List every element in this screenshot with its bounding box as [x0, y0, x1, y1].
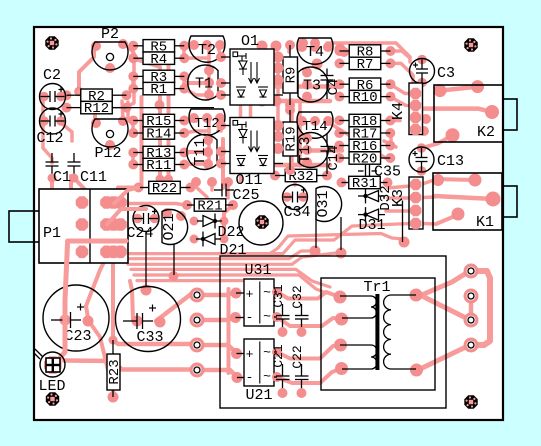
wire: bundle trace 7 lower — [137, 281, 259, 284]
svg-text:C32: C32 — [290, 285, 305, 308]
svg-text:~: ~ — [263, 345, 271, 360]
resistor R31 — [337, 178, 347, 188]
via O31 lead 1 — [310, 246, 321, 257]
pad K2 inner right — [471, 80, 484, 93]
wire: K1 inner diagonal — [436, 216, 455, 224]
pads row above R21 — [191, 177, 201, 187]
relay K2 body — [434, 85, 503, 142]
svg-text:T3: T3 — [303, 78, 321, 95]
svg-text:C21: C21 — [271, 344, 286, 368]
relay K1 body — [433, 173, 502, 230]
svg-text:O11: O11 — [235, 172, 262, 189]
wire: U21 output to transformer primary 3 — [277, 345, 341, 359]
transistor T4 — [297, 42, 307, 52]
wire: K3 pad2 to K1 — [422, 195, 435, 199]
wire: vertical stub left of R15 — [126, 102, 130, 121]
wire: ring4 to LED right pad — [64, 361, 197, 370]
capacitor C1 — [51, 153, 53, 162]
connector K4 — [409, 83, 423, 135]
resistor R32 — [270, 171, 280, 181]
optocoupler O11 — [261, 120, 272, 131]
resistor R20 — [334, 153, 344, 163]
svg-text:R1: R1 — [150, 82, 167, 98]
transformer secondary winding — [391, 294, 416, 296]
svg-text:C23: C23 — [64, 328, 91, 345]
connector K3 — [409, 177, 423, 229]
svg-text:T12: T12 — [194, 116, 219, 132]
wire: U31 output to transformer primary 2 — [277, 317, 342, 326]
buzzer outline circle — [239, 201, 283, 245]
wire: D32 to K3 pad3 — [386, 209, 410, 213]
via O21 lead — [169, 271, 179, 281]
pad K1 inner lone — [452, 208, 465, 221]
wire: R17/R16/R20 right pads vertical — [389, 133, 393, 146]
pad K2 inner big — [485, 105, 499, 119]
via end of vertical 2 — [164, 175, 173, 184]
wire: C23 top feed diagonal — [86, 262, 104, 318]
diode D31 symbol — [358, 214, 366, 216]
wire: transformer secondary top to ring pad column — [418, 294, 468, 319]
svg-text:K2: K2 — [477, 124, 495, 141]
transformer pad secondary top — [410, 289, 423, 302]
transformer pad primary 1 — [334, 291, 347, 304]
connector P1 tab (left board edge) — [9, 211, 40, 242]
wire: bundle trace 4 (to O31 lead pad 2) — [128, 253, 341, 264]
output hole ring 2 — [190, 313, 205, 328]
resistor R17 — [334, 128, 344, 138]
mounting hole bottom-right — [464, 395, 477, 408]
via right of C2 — [74, 87, 84, 97]
svg-text:C12: C12 — [36, 130, 63, 147]
buzzer center hole — [255, 215, 268, 228]
wire: K1 inner trace 2 — [435, 196, 493, 199]
svg-text:C1 C11: C1 C11 — [53, 169, 107, 186]
wire: U21 output to transformer primary 4 — [277, 369, 342, 384]
svg-text:~: ~ — [263, 285, 271, 300]
svg-text:C33: C33 — [136, 329, 163, 346]
wire: vertical pair T3 down to T14/R32 — [290, 100, 294, 166]
resistor R15 — [128, 116, 138, 126]
wire: bundle trace 1 (branch to via near K3) — [270, 234, 404, 254]
wire: R5/R4 left pads vertical — [131, 46, 135, 58]
wire: R3 left pad to R1 pad — [131, 76, 135, 88]
wire: R22 left feed — [118, 186, 140, 190]
wire: O11 right pads vertical — [276, 126, 280, 137]
wire: T4 pads row to C3 — [327, 43, 410, 57]
enclosure box power section — [220, 256, 446, 408]
wire: R10 right pad to K4 pad3 — [390, 97, 414, 106]
resistor R21 — [182, 200, 192, 210]
wire: bundle trace 2 (P1 to K3 pad4) — [121, 224, 412, 254]
svg-text:+: + — [246, 347, 254, 362]
wire: K1 inner trace 1 — [436, 179, 474, 180]
wire: vertical right of T11 down to C25 area — [221, 139, 225, 188]
bridge U21 lead pads — [231, 348, 242, 359]
output hole ring right 3 — [464, 313, 479, 328]
via mid pad — [155, 100, 165, 110]
transistor T3 — [302, 68, 312, 78]
svg-text:P2: P2 — [101, 26, 119, 43]
output hole ring 1 — [190, 288, 205, 303]
photo-mos O31 — [316, 187, 342, 222]
wire: P1 right pad horizontal to R21 — [122, 204, 185, 206]
pad K1 inner left — [432, 174, 444, 186]
wire: P1 row2 diagonal under C24 — [107, 209, 146, 225]
wire: diode common lead down to via — [402, 201, 404, 243]
transistor T2 — [189, 40, 199, 50]
wire: bundle trace 3 (to O31 lead pad) — [125, 251, 315, 259]
wire: U31 output to transformer primary 1 — [277, 292, 340, 299]
svg-text:P12: P12 — [94, 145, 121, 162]
transistor T13 — [302, 133, 312, 143]
wire: P2 left pad down to pad near C2 — [79, 45, 94, 92]
svg-text:O21: O21 — [161, 213, 178, 240]
svg-text:C3: C3 — [437, 65, 455, 82]
wire: R4 left pad diagonal down long vertical — [133, 58, 160, 179]
wire: horizontal into T1 middle pad — [184, 81, 208, 85]
wire: R13/R11 left pads vertical — [131, 153, 135, 165]
wire: R31 right to K3 pad2 — [388, 196, 410, 200]
resistor R2 — [62, 90, 72, 100]
resistor R1 — [128, 84, 138, 94]
wire: C33 left pad up to bundle — [130, 281, 133, 319]
wire: ring2 to U31 - pad — [197, 318, 235, 321]
svg-text:K1: K1 — [476, 214, 494, 231]
wire: vertical feed from T2 to R3 area — [182, 44, 186, 55]
wire: DC bus vertical left of bridges — [227, 289, 231, 373]
svg-text:T2: T2 — [198, 42, 216, 59]
wire: C1 pad down into P1 row2 pad — [52, 179, 82, 225]
svg-text:R14: R14 — [146, 127, 171, 143]
wire: T4 left pad down R9 top — [287, 43, 291, 52]
resistor R18 — [334, 116, 344, 126]
resistor R7 — [335, 58, 345, 68]
wire: C2-C12 left pads vertical — [41, 95, 45, 119]
pad K1 inner right — [469, 174, 482, 187]
capacitor C31 (vertical) — [282, 304, 284, 316]
diagonal trace behind R17 right — [384, 141, 396, 147]
output hole ring right 4 — [464, 338, 479, 353]
wire: T12 center pad down through T11 pads — [207, 118, 211, 164]
wire: R8 right pad to K4 — [390, 51, 410, 62]
mounting hole top-right — [464, 38, 477, 51]
svg-text:C4: C4 — [326, 79, 342, 96]
wire: thick horizontal through T3 — [276, 84, 342, 89]
resistor R13 — [128, 148, 138, 158]
transistor T12 — [189, 113, 199, 123]
transformer pad primary 3 — [334, 339, 347, 352]
wire: K3 pad4 to K1 diagonal — [422, 222, 436, 226]
optocoupler O1 — [261, 52, 272, 63]
svg-text:C24: C24 — [126, 225, 153, 242]
pad T4/T3 junction — [312, 59, 323, 70]
svg-text:T13: T13 — [297, 136, 314, 163]
wire: horizontal into T11 middle pad — [184, 150, 208, 154]
svg-text:LED: LED — [38, 378, 65, 395]
capacitor C32 (vertical) — [301, 304, 303, 316]
bridge rectifier U31 — [244, 279, 274, 326]
transistor T14 — [297, 116, 307, 126]
svg-text:U31: U31 — [244, 262, 271, 279]
svg-text:~: ~ — [263, 309, 271, 324]
svg-text:K3: K3 — [390, 189, 407, 207]
diode D21 — [196, 238, 203, 240]
resistor R6 — [335, 79, 345, 89]
svg-text:C13: C13 — [437, 153, 464, 170]
pads at diode cathodes — [220, 217, 229, 226]
wire: ring3 to R23 top — [114, 341, 195, 344]
output hole ring right 2 — [464, 289, 479, 304]
mounting hole bottom-left — [46, 392, 59, 405]
capacitor C35 — [358, 170, 364, 172]
wire: R5 right pad to T2 left pad — [184, 43, 196, 47]
capacitor C11 — [73, 153, 75, 162]
wire: ring1-ring2 vertical link — [469, 297, 474, 319]
wire: ring3 to U21 + pad — [197, 345, 236, 352]
connector K2 tab (right board edge) — [503, 99, 517, 130]
svg-text:O31: O31 — [315, 190, 332, 217]
pad K1 inner big — [486, 192, 501, 207]
via C24 lead — [141, 285, 152, 296]
transistor T1 — [204, 66, 214, 76]
svg-text:R22: R22 — [152, 181, 177, 197]
pads T4 row — [298, 38, 308, 48]
svg-text:-: - — [246, 370, 254, 385]
pads above O1 — [257, 41, 268, 52]
svg-text:U21: U21 — [245, 387, 272, 404]
wire: R12 long right lead — [113, 107, 214, 109]
wire: long vertical through optocouplers — [239, 50, 243, 181]
mounting hole top-left — [45, 36, 58, 49]
wire: top ring to thick vertical return — [471, 271, 490, 345]
svg-text:R21: R21 — [197, 199, 222, 215]
via O31 lead 2 — [336, 248, 347, 259]
wire: T11 pad diagonal down — [196, 187, 207, 197]
wire: K2 inner trace 1 — [440, 87, 478, 91]
capacitor C34 — [282, 192, 292, 202]
wire: thick horizontal through T13 — [276, 148, 342, 153]
svg-text:~: ~ — [263, 369, 271, 384]
wire: transformer secondary top to top ring — [424, 272, 468, 294]
resistor R5 — [128, 41, 138, 51]
wire: C23 right pad down to R23 bottom — [88, 320, 114, 395]
wire: R15 right pad to T12 left pad — [184, 119, 196, 123]
connector P1 pads — [76, 196, 89, 209]
wire: R6 right pad to K4 pad2 — [390, 84, 414, 93]
wire: C12 right pad diagonal down — [59, 121, 72, 141]
wire: T11 area vertical feeds — [219, 152, 223, 164]
wire: pads at T12 bottom to O11 — [218, 126, 221, 132]
resistor R22 — [134, 183, 144, 193]
svg-text:C14: C14 — [326, 145, 342, 170]
wire: C11 pad diagonal to P1 row1 pads — [74, 178, 104, 203]
svg-text:O1: O1 — [241, 33, 259, 50]
svg-text:R11: R11 — [146, 158, 171, 174]
capacitor C25 — [214, 189, 222, 191]
output hole ring 3 — [190, 338, 205, 353]
wire: R4 right pad to T2 vertical — [184, 56, 209, 60]
wire: C24 lead down — [144, 287, 148, 291]
resistor R11 — [128, 160, 138, 170]
svg-text:C34: C34 — [283, 204, 310, 221]
wire: C12 left pad down to C1 — [43, 119, 52, 163]
svg-text:T11: T11 — [192, 138, 209, 165]
via end of vertical 1 — [156, 175, 165, 184]
pad K2 inner left — [434, 84, 447, 97]
wire: R32 left pad feed — [266, 168, 276, 175]
wire: R7 right pad to K4 — [390, 63, 413, 92]
via bundle 7 end — [254, 281, 263, 290]
pad K2 inner lone — [446, 128, 460, 142]
wire: thick horizontal T3 lower — [258, 99, 330, 104]
wire: P12 right pad up — [122, 101, 123, 119]
wire: mid pads row above R21 — [210, 182, 214, 190]
resistor R16 — [334, 141, 344, 151]
resistor R19 (vertical) — [285, 105, 295, 115]
pads at diode anodes — [190, 217, 199, 226]
capacitor C33 (large electrolytic) — [132, 316, 143, 327]
wire: R18 right pad right — [391, 119, 400, 123]
wire: C35 to K3 pad1 — [388, 186, 410, 188]
wire: second long vertical behind resistors — [167, 66, 171, 179]
transformer pad secondary bottom — [410, 364, 423, 377]
transformer core bar — [375, 294, 379, 370]
wire: C34 top lead — [293, 178, 297, 185]
transistor T11 — [203, 135, 213, 145]
LED — [44, 356, 62, 374]
svg-text:K4: K4 — [390, 102, 407, 120]
svg-text:R9: R9 — [284, 67, 300, 84]
svg-text:C22: C22 — [290, 345, 305, 368]
resistor R3 — [128, 71, 138, 81]
wire: ring4 to U21 - pad — [197, 370, 236, 376]
resistor R23 (vertical) — [109, 336, 118, 345]
resistor R4 — [128, 53, 138, 63]
svg-text:C31: C31 — [271, 284, 286, 308]
wire: C24 bottom lead — [145, 232, 147, 288]
capacitor C12 — [39, 116, 49, 126]
wire: bundle trace 6 — [134, 275, 326, 293]
wire: ring1 to U31 + pad — [197, 293, 234, 295]
wire: P2 right pad down to R12 right lead — [124, 43, 134, 106]
wire: C13 top pad diagonal into K2 — [422, 136, 453, 149]
bridge U31 lead pads — [231, 288, 242, 299]
output hole ring right 1 — [464, 264, 479, 279]
board outline — [34, 27, 503, 420]
capacitor C2 — [39, 92, 49, 102]
diode D22 — [197, 220, 203, 222]
wire: O1 right pad columns vertical — [276, 53, 280, 120]
svg-text:T1: T1 — [195, 76, 213, 93]
trimmer P2 — [91, 41, 101, 51]
pads O21 — [162, 208, 172, 218]
svg-text:C35: C35 — [374, 164, 401, 181]
svg-text:C2: C2 — [43, 67, 61, 84]
svg-text:P1: P1 — [43, 225, 61, 242]
wire: R21 right pad down vertical through D22/D21 — [224, 205, 233, 240]
svg-text:-: - — [246, 310, 254, 325]
wire: T2 center pad down through T1 pads — [207, 45, 211, 95]
output hole ring 4 — [190, 363, 205, 378]
via near D31 — [399, 237, 410, 248]
wire: R14 right pad to T12 vertical — [184, 131, 209, 133]
photo-mos O21 — [162, 210, 188, 245]
bridge rectifier U21 — [244, 339, 274, 386]
capacitor C4 (vertical) — [326, 69, 328, 76]
transformer pad primary 2 — [335, 313, 348, 326]
capacitor C14 (vertical) — [326, 134, 328, 147]
connector P1 body — [39, 189, 128, 263]
wire: T2 pads to O1 left pads — [218, 47, 221, 57]
resistor R8 — [335, 46, 345, 56]
transformer Tr1 box — [321, 278, 435, 390]
transformer primary winding 2 — [340, 344, 371, 346]
resistor R14 — [128, 128, 138, 138]
diagonal trace behind R18 stack — [331, 124, 391, 161]
connector K1 tab (right board edge) — [503, 186, 517, 217]
wire: P1 thick L-trace to C23 — [58, 241, 126, 360]
wire: K3 pad1 to K1 — [421, 180, 434, 185]
wire: bundle trace 5 — [131, 269, 330, 287]
trimmer P12 — [91, 118, 101, 128]
pads K4 feed — [421, 114, 431, 124]
wire: second vertical above O11 — [249, 50, 253, 121]
capacitor C21 (vertical) — [282, 364, 284, 376]
capacitor C3 — [417, 55, 427, 65]
wire: transformer secondary bottom to ring — [418, 346, 468, 370]
resistor R9 (vertical) — [285, 40, 295, 50]
wire: P1 row1 right pads to R22 — [114, 188, 138, 204]
transformer pad primary 4 — [335, 362, 348, 375]
svg-text:R4: R4 — [150, 52, 167, 68]
wire: K4 pad2 to K2 trace2 — [414, 106, 492, 113]
svg-text:T4: T4 — [306, 44, 324, 61]
wire: R1 right pad to T1 bottom pad — [184, 89, 209, 95]
capacitor C22 (vertical) — [301, 364, 303, 376]
svg-text:Tr1: Tr1 — [363, 279, 390, 296]
transformer primary winding 1 — [340, 295, 371, 297]
wire: C11 lead down through R column to R22 left pad — [140, 97, 144, 186]
svg-text:R12: R12 — [84, 101, 109, 117]
wire: P1 pad down between capacitors to R23 top — [113, 251, 120, 341]
capacitor C13 — [417, 143, 427, 153]
wire: via to P12 top pad — [79, 92, 95, 121]
svg-text:R23: R23 — [107, 359, 123, 384]
wire: P12 right pad to R15 left pads — [124, 121, 133, 134]
svg-text:D31: D31 — [358, 217, 385, 234]
pads below O1 row — [257, 96, 268, 107]
capacitor C23 (large electrolytic) — [60, 315, 71, 326]
svg-text:+: + — [246, 287, 254, 302]
wire: R11 right pad to T11 bottom pad — [184, 162, 209, 166]
svg-text:R10: R10 — [352, 90, 377, 106]
svg-text:R7: R7 — [357, 57, 374, 73]
resistor R10 — [335, 92, 345, 102]
wire: ring1 to C33 right pad — [156, 291, 195, 321]
pads right of T4 — [335, 44, 346, 55]
capacitor C24 — [133, 214, 143, 224]
diode D32 (pair upper) — [358, 195, 366, 197]
resistor R12 — [62, 103, 72, 113]
wire: vertical into P1 row1 left pad — [71, 176, 82, 203]
